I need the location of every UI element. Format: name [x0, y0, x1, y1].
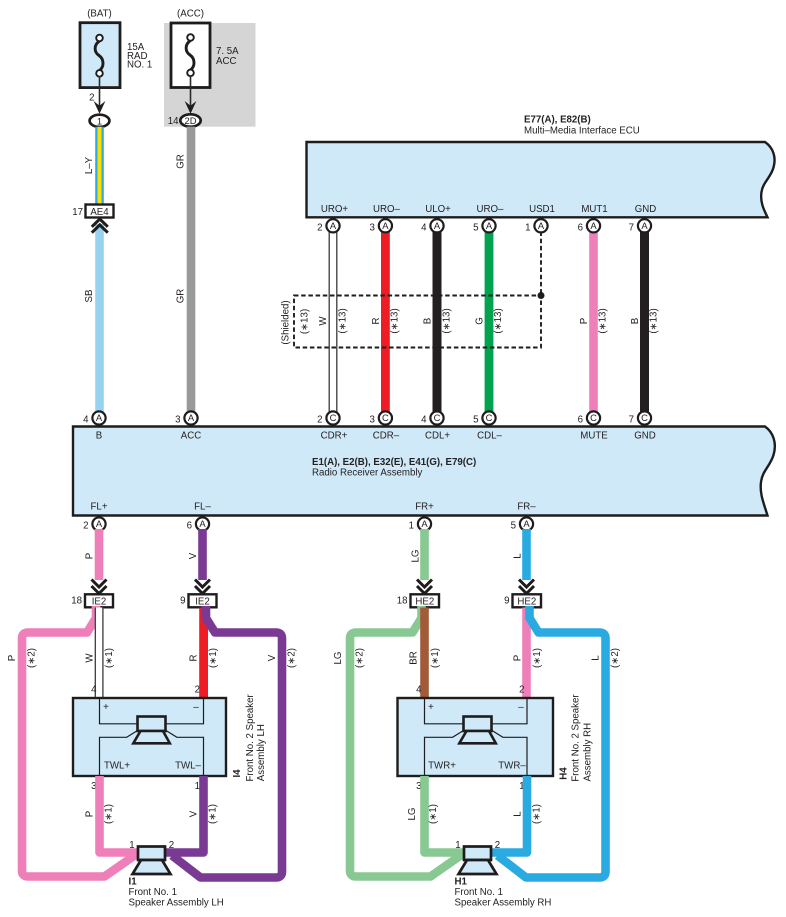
svg-text:2: 2 [83, 521, 88, 532]
wire R (IE2-9 to tweeter pin 2) [188, 608, 219, 699]
svg-text:(∗13): (∗13) [299, 309, 310, 334]
svg-text:P: P [579, 318, 590, 324]
svg-text:V: V [188, 810, 199, 817]
svg-text:(∗1): (∗1) [532, 804, 543, 824]
svg-text:4: 4 [421, 415, 427, 426]
svg-text:Speaker Assembly LH: Speaker Assembly LH [129, 898, 224, 909]
svg-text:TWL–: TWL– [175, 761, 201, 772]
svg-text:(∗1): (∗1) [430, 648, 441, 668]
svg-text:A: A [590, 220, 597, 231]
svg-text:R: R [188, 655, 199, 662]
svg-text:GND: GND [634, 431, 656, 442]
radio top pin circles [83, 411, 651, 425]
svg-text:GR: GR [175, 154, 186, 169]
svg-text:CDL–: CDL– [477, 431, 502, 442]
svg-text:AE4: AE4 [90, 207, 109, 218]
svg-text:FR–: FR– [517, 502, 536, 513]
svg-text:9: 9 [180, 595, 185, 606]
svg-text:A: A [641, 220, 648, 231]
svg-text:C: C [382, 412, 389, 423]
svg-text:(∗2): (∗2) [286, 648, 297, 668]
svg-text:6: 6 [187, 521, 192, 532]
svg-text:2: 2 [89, 93, 94, 104]
svg-text:G: G [475, 317, 486, 325]
svg-text:URO–: URO– [477, 204, 505, 215]
wire R (CDR-) [371, 231, 401, 412]
svg-text:MUTE: MUTE [580, 431, 608, 442]
svg-text:LG: LG [333, 652, 344, 665]
svg-text:(∗1): (∗1) [208, 804, 219, 824]
svg-text:URO+: URO+ [321, 204, 349, 215]
wire LG loop RH outer (HE2-18 to front speaker pin 1) [333, 606, 462, 877]
svg-text:W: W [84, 653, 95, 663]
wire fuse BAT to connector 1 [99, 76, 101, 108]
wire B (CDL+) [422, 231, 452, 412]
svg-text:GR: GR [175, 289, 186, 304]
svg-text:FL+: FL+ [91, 502, 108, 513]
wire V from FL- [188, 529, 207, 580]
svg-text:7: 7 [629, 222, 634, 233]
svg-text:Multi–Media Interface ECU: Multi–Media Interface ECU [524, 126, 640, 137]
svg-text:L: L [512, 811, 523, 817]
svg-text:Speaker Assembly RH: Speaker Assembly RH [455, 898, 552, 909]
svg-text:(Shielded): (Shielded) [280, 300, 291, 344]
svg-text:5: 5 [473, 415, 478, 426]
wire V (tweeter pin1 to front speaker pin2) [164, 776, 219, 853]
svg-text:5: 5 [473, 222, 478, 233]
svg-text:Assembly LH: Assembly LH [256, 724, 267, 781]
svg-text:14: 14 [168, 116, 179, 127]
svg-text:(∗1): (∗1) [104, 648, 115, 668]
wire P (tweeter pin3 to front speaker pin1) [84, 776, 139, 853]
svg-text:Assembly RH: Assembly RH [582, 723, 593, 782]
svg-text:(∗13): (∗13) [649, 308, 660, 333]
svg-text:P: P [84, 553, 95, 559]
wire P from FL+ [84, 529, 103, 580]
svg-text:(∗13): (∗13) [441, 308, 452, 333]
svg-text:CDR+: CDR+ [321, 431, 348, 442]
svg-text:A: A [523, 518, 530, 529]
svg-text:C: C [486, 412, 493, 423]
fuse 15A RAD NO.1 (BAT) [80, 9, 152, 88]
svg-text:IE2: IE2 [92, 597, 107, 608]
wire BR (HE2-18 to tweeter pin 4) [408, 608, 441, 699]
designation I4 Front No.2 Speaker Assembly LH [232, 694, 267, 782]
svg-text:A: A [96, 518, 103, 529]
svg-text:(∗2): (∗2) [610, 648, 621, 668]
chevron marks below AE4 [92, 219, 108, 233]
svg-text:E1(A), E2(B), E32(E), E41(G),: E1(A), E2(B), E32(E), E41(G), E79(C) [312, 457, 476, 468]
svg-text:LG: LG [410, 550, 421, 563]
wire P (HE2-9 to tweeter pin 2) [512, 608, 543, 699]
connector IE2 pin 18 [71, 594, 113, 607]
svg-text:1: 1 [195, 781, 200, 792]
svg-text:Front No. 1: Front No. 1 [455, 887, 503, 898]
svg-text:V: V [188, 552, 199, 559]
svg-text:SB: SB [84, 290, 95, 303]
svg-text:P: P [7, 655, 18, 661]
svg-text:L–Y: L–Y [84, 156, 95, 174]
connector oval 2D [180, 114, 200, 126]
svg-text:NO. 1: NO. 1 [127, 60, 152, 71]
svg-text:1: 1 [525, 222, 530, 233]
svg-text:V: V [267, 654, 278, 661]
arrow into connector 1 [94, 101, 106, 114]
svg-text:(∗1): (∗1) [104, 804, 115, 824]
svg-text:4: 4 [91, 685, 97, 696]
svg-text:GND: GND [635, 204, 657, 215]
svg-text:I4: I4 [232, 769, 243, 778]
svg-text:(∗13): (∗13) [390, 308, 401, 333]
svg-text:(∗13): (∗13) [493, 308, 504, 333]
svg-text:L: L [512, 553, 523, 559]
ECU pin circles row A [317, 219, 651, 233]
svg-text:(∗13): (∗13) [598, 308, 609, 333]
svg-text:(∗1): (∗1) [208, 648, 219, 668]
svg-text:–: – [518, 702, 524, 713]
svg-text:A: A [382, 220, 389, 231]
svg-text:(∗13): (∗13) [337, 308, 348, 333]
svg-text:ULO+: ULO+ [425, 204, 451, 215]
svg-text:Radio Receiver Assembly: Radio Receiver Assembly [312, 468, 423, 479]
wire fuse ACC to connector 2D [190, 76, 192, 109]
svg-text:2D: 2D [185, 115, 197, 126]
svg-text:3: 3 [370, 222, 375, 233]
wire V loop LH outer (IE2-9 to front speaker pin 2) [172, 606, 297, 878]
svg-text:I1: I1 [129, 877, 138, 888]
wire GR from connector 2D to radio [175, 127, 195, 412]
svg-text:2: 2 [195, 685, 200, 696]
svg-text:(ACC): (ACC) [177, 9, 204, 20]
fuse 7.5A ACC [171, 9, 239, 88]
svg-text:1: 1 [97, 115, 102, 126]
svg-text:6: 6 [578, 415, 583, 426]
speaker assembly No.2 RH box [398, 698, 554, 776]
svg-text:C: C [330, 412, 337, 423]
svg-text:Front No. 1: Front No. 1 [129, 887, 177, 898]
svg-text:A: A [421, 518, 428, 529]
arrow into connector 2D [185, 101, 197, 114]
wire L (tweeter pin1 to front speaker pin2) [490, 776, 543, 853]
svg-text:FR+: FR+ [415, 502, 434, 513]
svg-text:H4: H4 [558, 767, 569, 780]
svg-text:HE2: HE2 [517, 597, 536, 608]
svg-text:E77(A), E82(B): E77(A), E82(B) [524, 115, 591, 126]
svg-text:HE2: HE2 [415, 597, 434, 608]
speaker assembly No.2 LH box [73, 698, 226, 776]
wire L loop RH outer (HE2-9 to front speaker pin 2) [498, 606, 621, 878]
tweeter symbol RH [464, 717, 492, 732]
wire L from FR- [512, 529, 530, 580]
svg-text:4: 4 [421, 222, 427, 233]
svg-text:CDR–: CDR– [373, 431, 400, 442]
svg-text:17: 17 [72, 207, 83, 218]
svg-text:TWR–: TWR– [498, 761, 526, 772]
Radio Receiver Assembly box [73, 427, 775, 516]
svg-text:1: 1 [129, 840, 134, 851]
designation H1 Front No.1 Speaker Assembly RH [455, 877, 552, 909]
svg-text:1: 1 [455, 840, 460, 851]
wire W (IE2-18 to tweeter pin 4) [84, 608, 115, 699]
svg-text:A: A [330, 220, 337, 231]
front speaker symbol RH [455, 840, 500, 874]
connector HE2 pin 9 [504, 594, 541, 607]
svg-text:IE2: IE2 [195, 597, 210, 608]
wire L-Y from connector 1 to AE4 [84, 127, 104, 205]
svg-text:9: 9 [504, 595, 509, 606]
svg-text:18: 18 [71, 595, 82, 606]
shielded cable dashed outline [280, 292, 544, 348]
svg-text:P: P [512, 655, 523, 661]
svg-text:L: L [590, 655, 601, 661]
svg-text:5: 5 [511, 521, 516, 532]
svg-text:CDL+: CDL+ [425, 431, 450, 442]
svg-text:6: 6 [578, 222, 583, 233]
svg-text:A: A [538, 220, 545, 231]
designation H4 Front No.2 Speaker Assembly RH [558, 694, 593, 782]
svg-text:2: 2 [317, 222, 322, 233]
svg-text:W: W [318, 316, 329, 326]
svg-text:3: 3 [370, 415, 375, 426]
svg-text:A: A [199, 518, 206, 529]
svg-text:A: A [486, 220, 493, 231]
chevron marks above HE2 (FR+) [417, 580, 432, 594]
gray panel behind ACC fuse [164, 23, 256, 127]
svg-text:7: 7 [629, 415, 634, 426]
svg-text:Front No. 2 Speaker: Front No. 2 Speaker [571, 694, 582, 782]
svg-text:FL–: FL– [194, 502, 211, 513]
svg-text:BR: BR [408, 651, 419, 664]
svg-text:4: 4 [83, 415, 89, 426]
svg-text:C: C [641, 412, 648, 423]
svg-text:2: 2 [495, 840, 500, 851]
svg-text:A: A [188, 412, 195, 423]
shield junction dot [538, 292, 545, 299]
svg-text:18: 18 [397, 595, 408, 606]
svg-text:(∗2): (∗2) [354, 648, 365, 668]
svg-text:MUT1: MUT1 [581, 204, 607, 215]
wire G (CDL-) [475, 231, 505, 412]
svg-text:ACC: ACC [181, 431, 201, 442]
svg-text:+: + [428, 702, 434, 713]
wire SB from AE4 to radio [84, 224, 104, 412]
svg-text:A: A [434, 220, 441, 231]
svg-text:B: B [96, 431, 102, 442]
svg-text:2: 2 [519, 685, 524, 696]
svg-text:USD1: USD1 [529, 204, 555, 215]
svg-text:C: C [590, 412, 597, 423]
svg-text:+: + [103, 702, 109, 713]
wire LG (tweeter pin3 to front speaker pin1) [407, 776, 465, 853]
svg-text:–: – [193, 702, 199, 713]
svg-text:4: 4 [416, 685, 422, 696]
connector AE4 [72, 205, 113, 219]
wire B (GND) [630, 231, 660, 412]
connector HE2 pin 18 [397, 594, 439, 607]
wire P loop LH outer (IE2-18 to front speaker pin 1) [7, 606, 136, 877]
chevron marks above IE2 (FL+) [92, 580, 107, 594]
svg-text:TWL+: TWL+ [104, 761, 130, 772]
svg-text:C: C [434, 412, 441, 423]
svg-text:(∗1): (∗1) [428, 804, 439, 824]
connector IE2 pin 9 [180, 594, 216, 607]
svg-text:R: R [371, 318, 382, 325]
svg-text:(BAT): (BAT) [87, 9, 112, 20]
svg-text:H1: H1 [455, 877, 468, 888]
wire W (CDR+) [318, 231, 349, 412]
svg-text:2: 2 [317, 415, 322, 426]
chevron marks above HE2 (FR-) [519, 580, 534, 594]
svg-text:2: 2 [169, 840, 174, 851]
svg-text:URO–: URO– [373, 204, 401, 215]
svg-text:(∗2): (∗2) [26, 648, 37, 668]
tweeter symbol LH [138, 717, 166, 732]
svg-text:ACC: ACC [216, 56, 236, 67]
Multi-Media Interface ECU box [307, 115, 775, 218]
svg-text:1: 1 [409, 521, 414, 532]
svg-text:A: A [96, 412, 103, 423]
svg-text:P: P [84, 811, 95, 817]
svg-text:B: B [630, 318, 641, 324]
svg-text:(∗1): (∗1) [532, 648, 543, 668]
wire LG from FR+ [410, 529, 428, 580]
connector oval 1 [90, 115, 110, 127]
designation I1 Front No.1 Speaker Assembly LH [129, 877, 224, 909]
svg-text:TWR+: TWR+ [428, 761, 456, 772]
wire P (MUTE) [579, 231, 609, 412]
wire USD1 dashed shield drain [540, 232, 542, 294]
radio bottom pin circles [83, 517, 533, 531]
svg-text:3: 3 [175, 415, 180, 426]
svg-text:LG: LG [407, 808, 418, 821]
chevron marks above IE2 (FL-) [195, 580, 210, 594]
svg-text:Front No. 2 Speaker: Front No. 2 Speaker [245, 694, 256, 782]
front speaker symbol LH [129, 840, 174, 874]
svg-text:B: B [422, 318, 433, 324]
